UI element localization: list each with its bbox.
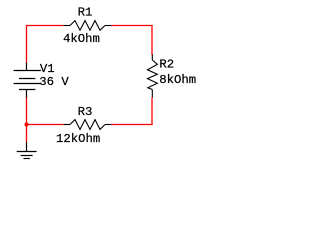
wire bottom-left horizontal [26, 124, 63, 126]
resistor R3 [63, 120, 111, 130]
wire right vertical upper [151, 25, 153, 55]
svg-text:V1: V1 [40, 62, 55, 76]
ground [17, 142, 37, 159]
svg-text:R3: R3 [78, 105, 93, 119]
svg-text:R2: R2 [159, 58, 174, 72]
svg-text:36 V: 36 V [39, 75, 69, 89]
resistor R2 [148, 54, 158, 98]
wire top-left horizontal [26, 25, 63, 27]
wire right vertical lower [151, 98, 153, 125]
wire bottom-right horizontal [111, 124, 152, 126]
svg-text:4kOhm: 4kOhm [63, 32, 100, 46]
svg-text:R1: R1 [78, 5, 93, 19]
junction node [25, 123, 29, 127]
battery V1 [14, 63, 41, 98]
wire left vertical upper [26, 25, 28, 63]
svg-text:12kOhm: 12kOhm [56, 132, 100, 146]
wire left vertical lower [26, 98, 28, 126]
wire top-right horizontal [111, 25, 152, 27]
svg-text:8kOhm: 8kOhm [159, 73, 196, 87]
resistor R1 [63, 21, 111, 31]
wire ground drop [26, 125, 28, 143]
